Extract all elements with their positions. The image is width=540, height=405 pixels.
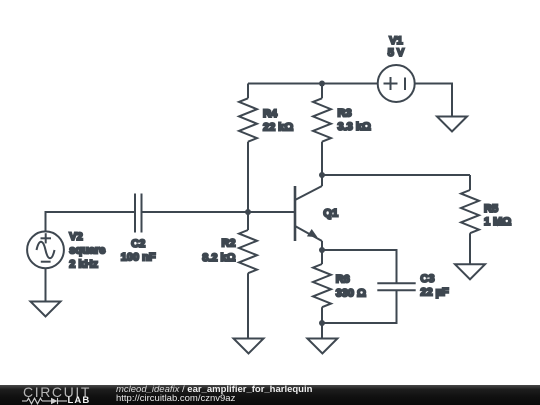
node collector junction — [319, 172, 325, 178]
resistor R4 — [239, 84, 257, 213]
voltage source V1 — [378, 65, 415, 102]
svg-text:R4: R4 — [263, 108, 278, 120]
transistor Q1 — [295, 175, 322, 250]
ground (R5) — [455, 264, 485, 279]
svg-text:3.3 kΩ: 3.3 kΩ — [338, 121, 371, 133]
wire C2 to base — [142, 211, 296, 213]
svg-text:Q1: Q1 — [323, 208, 338, 220]
resistor R6 — [313, 250, 331, 323]
resistor R5 — [461, 175, 479, 264]
svg-text:R5: R5 — [484, 203, 498, 215]
wire V2 bottom — [45, 268, 47, 301]
wire collector to R5 — [322, 174, 470, 176]
svg-text:R6: R6 — [336, 274, 350, 286]
svg-text:22 µF: 22 µF — [420, 287, 449, 299]
capacitor C3 — [377, 283, 415, 290]
resistor R3 — [313, 84, 331, 176]
footer credit line — [116, 386, 312, 394]
logo LAB text — [68, 397, 91, 405]
wire C3 bottom to emitter-ground node — [322, 290, 397, 323]
svg-text:C2: C2 — [131, 238, 145, 250]
svg-text:V2: V2 — [69, 231, 82, 243]
svg-text:22 kΩ: 22 kΩ — [263, 122, 293, 134]
footer url line — [116, 395, 235, 403]
ground (R6) — [307, 339, 337, 354]
wire V1 to ground — [415, 84, 452, 117]
capacitor C2 — [135, 194, 142, 233]
node base junction — [245, 209, 251, 215]
wire R6 node to ground — [321, 323, 323, 339]
resistor R2 — [239, 212, 257, 339]
node top-rail junction — [319, 81, 325, 87]
ground (R2) — [234, 339, 264, 354]
logo circuit doodle — [22, 397, 72, 405]
svg-text:8.2 kΩ: 8.2 kΩ — [202, 252, 235, 264]
svg-text:1 MΩ: 1 MΩ — [484, 216, 511, 228]
node R6 bottom junction — [319, 320, 325, 326]
node emitter junction — [319, 247, 325, 253]
footer bar — [0, 385, 540, 405]
svg-text:C3: C3 — [420, 273, 434, 285]
svg-text:2 kHz: 2 kHz — [69, 259, 98, 271]
svg-text:5 V: 5 V — [388, 47, 405, 59]
svg-text:V1: V1 — [389, 35, 402, 47]
CircuitLab logo — [23, 387, 91, 398]
svg-text:100 nF: 100 nF — [121, 252, 156, 264]
svg-text:330 Ω: 330 Ω — [336, 288, 366, 300]
svg-text:R2: R2 — [221, 238, 235, 250]
ground (V2) — [31, 302, 61, 317]
svg-text:R3: R3 — [338, 108, 352, 120]
voltage source V2 — [27, 231, 64, 268]
wire V2 top to C2 — [46, 212, 136, 231]
wire emitter node to C3 top — [322, 250, 397, 283]
svg-text:square: square — [69, 245, 105, 257]
wire top rail — [248, 83, 378, 85]
ground (V1) — [437, 117, 467, 132]
